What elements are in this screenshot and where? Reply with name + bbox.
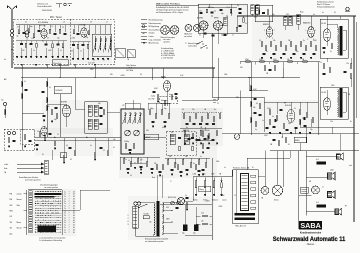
choke Dr1 [316,159,326,165]
texture overlay table [28,189,76,236]
cluster row2 caps [188,139,215,141]
svg-text:EL95: EL95 [322,23,326,25]
table right labels [64,194,74,196]
wire tuner rail2 [16,40,67,42]
wire em feeds [294,127,306,151]
label FM-Tuner [50,16,62,19]
pin labels V5 [306,30,317,41]
wire am [22,104,67,127]
svg-text:4n: 4n [169,94,171,96]
socket diagram U1 [161,26,170,35]
dash box klang2 [148,99,155,101]
svg-text:C9: C9 [90,22,92,24]
texture overlay demod [252,18,322,60]
grounds tuner2 [72,59,109,60]
wire drop2 [162,68,164,78]
branch C2 [213,103,219,105]
ground pot [213,195,215,196]
wire v22 [21,78,23,151]
label top right [317,1,335,9]
wire drop [46,66,48,68]
junction grounds mid [128,160,146,170]
wire if am [75,78,120,113]
wire box internals [198,4,237,38]
value labels texture [4,12,352,208]
label 220 [128,215,130,226]
legend row [141,35,154,38]
svg-text:S1: S1 [42,154,44,156]
caps y54 row [263,54,316,55]
IF trafo 2 [284,17,293,31]
label fb sockets [261,197,279,202]
if am coil2 [88,119,98,129]
audio caps [273,110,307,131]
box output1 [320,19,348,58]
svg-text:TT: TT [322,187,324,189]
parts left col [21,81,51,102]
table row label [10,192,23,195]
table dark row1 [35,193,62,195]
tube V2 ECH81 top [199,21,208,30]
svg-text:1,2k: 1,2k [330,121,333,123]
logo SABA box [299,221,322,230]
label tone names [193,199,227,202]
svg-text:100: 100 [113,139,116,141]
potentiometer [213,178,215,188]
svg-text:C40: C40 [146,130,149,132]
table frame [28,190,62,235]
label box am-zf [145,134,159,140]
res chain 251 [250,86,257,123]
wire drop2 [282,68,284,78]
switch contacts [196,41,207,49]
row2 parts [20,43,64,48]
table right labels [64,206,74,208]
svg-text:Stereo: Stereo [17,198,22,201]
label ferrit switch [19,176,41,181]
wire if mid [144,137,212,140]
varcap C1 [125,130,131,136]
mid chain parts [320,62,352,78]
svg-text:UKW-ZF: UKW-ZF [56,90,64,92]
svg-text:- Stereo -: - Stereo - [306,243,316,246]
table contact [29,229,32,231]
texture overlay psu [128,196,214,240]
table right labels [64,217,74,219]
wire tube feeds [269,16,340,27]
choke Dr2 [316,202,326,208]
svg-text:Abschirmung: Abschirmung [149,42,159,45]
label stereo [306,243,316,246]
bus tone y176 [193,176,232,178]
wire fa [48,150,52,160]
label ta [114,58,129,61]
small box fa [60,153,67,158]
svg-text:250V: 250V [255,14,259,16]
svg-text:Fernbed., Stereo, TA: Fernbed., Stereo, TA [233,167,250,170]
FM tuner box [14,19,115,65]
wire spk1 [306,157,336,162]
svg-text:0,1: 0,1 [334,12,336,14]
parts near jack [176,195,189,210]
gang parts [124,141,135,154]
cap tuner c3 [54,34,57,35]
labels tuner1 [17,26,64,52]
box gang [121,109,144,154]
wire bus 1405 [35,140,122,142]
transformer T3 prim [154,203,155,236]
wire pot [221,188,223,195]
table row label [10,198,22,201]
labels under if [169,156,202,158]
res tuner r4 [49,29,51,33]
svg-text:8n: 8n [186,127,188,129]
wire v2405 [236,91,241,134]
transformer T1 winding [337,28,338,55]
wire under gang [120,157,160,170]
table right labels [64,208,74,210]
tube V9 ECH81am [63,105,71,117]
table contact [29,200,32,202]
cap tuner c1 [23,33,26,34]
ferrite bar 1 [235,213,256,216]
texture overlay cluster [181,108,223,146]
note right [185,42,200,47]
label sockets [161,36,176,44]
svg-text:Stereo: Stereo [17,227,22,230]
sockets ta [116,48,136,58]
wire am drops [64,138,108,156]
labels spk [309,164,353,208]
table dark row2 [35,196,55,197]
if am coil1 [88,105,98,116]
svg-text:Klangreg.: Klangreg. [161,100,168,102]
table dots row [35,190,62,193]
label EL95b [322,92,326,94]
table left wire [24,190,27,235]
table contact [29,226,32,228]
junction dots y775 [21,77,283,78]
potentiometer [221,178,223,188]
wire mid chain [327,58,351,87]
svg-text:30V: 30V [110,74,113,76]
gang coil [128,112,132,124]
svg-text:S2: S2 [70,159,72,161]
wire v306 [305,151,307,216]
labels if1 [199,5,247,25]
IF box am [85,102,108,134]
table header [40,184,58,189]
tube V5 EABC80 [308,27,314,38]
tube V8 ECL86 [287,110,295,123]
svg-text:TB: TB [127,59,129,61]
table right labels [64,232,74,234]
cap tuner c2 [38,31,41,32]
wire right low bus [270,150,359,152]
labels tone [193,174,222,176]
potentiometer [204,178,206,188]
socket diagram U2 [170,26,179,35]
label rect [168,197,176,199]
table contact [29,219,32,221]
socket DIN1 [185,25,192,32]
wire v60 [59,94,61,138]
midrow2 parts [156,165,200,177]
label ECC85a [40,25,46,27]
wire under if [165,158,210,163]
box em84 [294,137,307,143]
table conn wires [62,190,110,210]
wire fb route [237,151,291,170]
cluster under gang [123,159,153,174]
transformer T3 sec1 [162,203,163,235]
header title [156,4,181,6]
table row label [10,227,22,230]
wire dotted y112 [182,111,222,113]
wire pot [204,188,206,195]
svg-text:0,1: 0,1 [199,35,201,37]
svg-text:Wechselspannung: Wechselspannung [149,20,163,22]
svg-text:5µ: 5µ [255,129,257,131]
tube V3 EF89 top [213,21,222,30]
svg-text:+245V: +245V [220,195,224,197]
svg-text:Erde: Erde [4,168,7,170]
legend row [141,23,161,25]
resistor R1 [11,45,13,50]
bus y16 [237,15,356,17]
table contact [29,207,32,209]
table right labels [64,201,74,203]
svg-text:KW: KW [10,205,13,207]
box ukw label [54,86,71,94]
svg-text:Kombinationstruhe: Kombinationstruhe [300,232,322,235]
svg-text:Leitg. verbunden: Leitg. verbunden [149,38,162,41]
wire fb mid [258,177,265,187]
label top info [37,4,52,9]
wire gnd drops [22,48,64,57]
if mid parts [171,132,194,151]
audio parts [269,110,314,129]
svg-text:C2: C2 [217,103,219,105]
parts y42 row [261,42,317,50]
wire spk h [299,177,336,212]
wire drop [74,66,76,68]
label ECH81 [197,18,203,20]
wire rail2b [72,42,91,45]
table contact [29,224,32,226]
wire gang top [125,100,140,109]
table dots row [35,197,62,200]
svg-text:autom.: autom. [17,192,23,195]
table row label [10,232,13,235]
svg-text:ZF2: ZF2 [254,17,257,19]
jack TA2 [312,186,320,194]
varcap C2 [134,130,140,136]
tube V7 EL95 [323,98,331,110]
table right labels [64,220,74,222]
wire sec out [162,203,178,234]
res tuner r5 [59,29,61,33]
speaker LS4 [335,208,342,215]
label kombination [300,232,322,235]
wire drop2 [94,68,96,78]
transformer T2 sec [343,92,346,112]
svg-text:Mono: Mono [17,222,21,224]
label fernbed [233,167,250,170]
ground pot [195,195,197,196]
jack tone [177,197,184,204]
wire antenna lead [11,14,13,29]
table right labels [64,229,74,231]
elko blob2 [304,117,306,120]
res tuner2 r1 [73,30,75,34]
legend symbols [143,25,145,44]
wire row2 stubs [22,41,64,44]
wire y1335 [270,127,359,151]
elko blob1 [275,119,277,122]
tuning coil Lc [103,37,107,53]
svg-text:Drucktastenaggregat: Drucktastenaggregat [40,184,58,187]
wire pot [195,188,197,195]
table dots row [35,200,62,203]
audio grounds [269,133,311,134]
labels cluster [150,96,167,111]
gang coil [123,112,127,124]
potentiometer [195,178,197,188]
wire drop2 [250,68,252,78]
ferrite bar 2 [235,217,256,220]
jack left [2,100,7,119]
wire trafo up [157,175,162,201]
labels am2 [37,131,105,152]
res tuner r1 [18,30,20,34]
wire gnd drops2 [74,48,89,58]
coil mid [224,17,228,26]
table right labels [64,203,74,205]
box if1 [198,4,247,33]
cluster labels [182,109,216,132]
wire ps mesh [185,200,212,240]
diode D1 [50,137,56,139]
legend row [141,20,162,22]
table right labels [64,225,74,227]
diode D2 [82,137,88,139]
text teiler [126,64,136,72]
ground pot [220,195,222,196]
tube V6 EL95 [323,29,331,41]
table dots row [35,207,62,210]
branch C1 [213,99,219,101]
socket mid [234,134,240,140]
svg-text:100k: 100k [224,74,228,76]
wire v218 [217,58,219,100]
wire v263 [263,97,265,132]
parts under demod [264,66,276,75]
wire [11,37,13,45]
res ps [201,213,207,225]
cluster row2 [184,131,218,139]
svg-text:von außen: von außen [184,36,192,38]
svg-text:Gleichspannung: Gleichspannung [149,23,161,25]
svg-text:Lötöse: Lötöse [149,35,154,38]
wire drop [94,66,96,68]
label fa4 [236,225,247,228]
am drop parts [63,148,109,164]
ground pot [204,195,206,196]
table dots row [35,204,62,207]
jack sym topright [346,7,350,11]
wire tone left [185,170,232,201]
IF trafo 1 [251,5,260,17]
speaker LS3 [328,191,336,199]
wire y128 [180,127,222,129]
svg-text:8V: 8V [140,74,142,76]
if mid coil 2 [184,134,189,145]
symbol aux1 [56,3,72,7]
texture overlay tuner [16,21,112,63]
label din [184,33,192,38]
svg-text:mit Röhrenvoltmeter ±15% o.: mit Röhrenvoltmeter ±15% o. Signal [156,11,184,14]
svg-text:30V: 30V [240,67,243,69]
wire right bus2 [356,22,358,118]
label EL95 [322,23,326,25]
table dots row [35,209,62,212]
header line3 [156,11,184,14]
wire drop [59,66,61,68]
table dots row [35,202,62,205]
table row label [10,211,13,213]
svg-text:60: 60 [4,59,6,61]
wire out2 [326,90,328,115]
table row label [10,221,21,224]
table contact [29,210,32,212]
label EABC80 [303,22,310,25]
svg-text:LW: LW [10,216,13,218]
tube V10 EAA91 [163,81,170,92]
svg-text:240Ω 300Ω: 240Ω 300Ω [42,10,52,12]
grounds tuner [16,57,68,58]
svg-text:Schwarzwald Automatic 11: Schwarzwald Automatic 11 [273,236,346,243]
svg-text:Dr 2: Dr 2 [316,202,319,204]
table dots row [35,224,62,227]
am ant parts [8,132,32,148]
connector strip2 [45,160,49,175]
if mid coil 1 [170,134,175,145]
labels det [154,88,171,96]
table contact [29,191,32,193]
svg-text:FM - Tuner: FM - Tuner [50,16,62,19]
transformer T2 core [339,88,342,118]
legend row [141,42,158,45]
svg-text:DUE zu allen TV-Chass.: DUE zu allen TV-Chass. [156,4,181,6]
tube V1a ECC85 [41,29,47,39]
svg-text:30V: 30V [236,97,239,99]
pins bottom [21,64,96,66]
wire em [270,134,294,138]
table contact [29,231,32,233]
box dash am2 [20,129,35,144]
cap elko2 [193,225,199,235]
if1 extra parts [200,9,248,16]
wire fb int [236,170,238,213]
table right labels [64,198,74,200]
table dots row [35,221,62,224]
parts x198 y130 [198,130,210,153]
labels under gang [125,159,143,177]
junction dots y68 [21,67,212,68]
cable arrows [17,163,44,174]
FM tuner divider [69,19,71,65]
